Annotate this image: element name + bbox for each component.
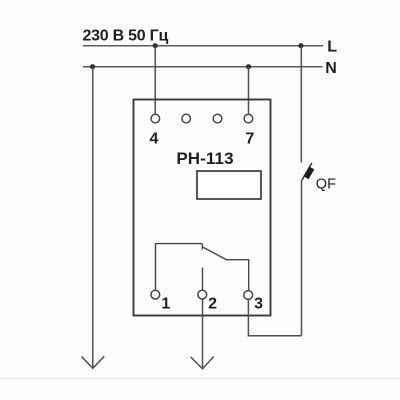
wire terminal 2 down to load arrow <box>202 299 204 368</box>
svg-text:2: 2 <box>208 295 217 312</box>
arrowhead middle load <box>191 357 214 369</box>
terminal 3 circle <box>244 291 253 300</box>
relay fixed contact tick <box>201 244 203 250</box>
terminal 6 circle <box>213 114 222 123</box>
svg-text:N: N <box>325 60 337 77</box>
device box РН-113 <box>134 100 271 316</box>
svg-text:QF: QF <box>316 176 336 192</box>
wire terminal 3 down and right to QF branch <box>248 299 301 335</box>
wire L line <box>83 45 323 47</box>
terminal 4 circle <box>151 114 160 123</box>
svg-text:РН-113: РН-113 <box>176 149 233 168</box>
display window rectangle <box>197 171 261 199</box>
terminal 5 circle <box>182 114 191 123</box>
relay moving blade <box>203 247 227 260</box>
terminal 2 circle <box>198 290 207 299</box>
svg-text:3: 3 <box>254 295 263 312</box>
relay contact: common bar from terminal 1 <box>156 244 203 291</box>
wire terminal 2 stub <box>202 268 204 291</box>
svg-text:4: 4 <box>149 131 158 148</box>
svg-text:L: L <box>327 38 337 55</box>
wire from N to terminal 7 <box>248 67 250 115</box>
terminal 7 circle <box>244 114 253 123</box>
wire from N down to left load arrow <box>92 67 94 367</box>
wire blade to terminal 3 <box>227 260 249 291</box>
terminal 1 circle <box>151 290 160 299</box>
wire from L to terminal 4 <box>154 46 156 115</box>
wire N line <box>83 66 323 68</box>
junction dot on L at QF drop <box>298 43 303 48</box>
svg-text:1: 1 <box>161 295 170 312</box>
breaker QF blade <box>302 163 312 180</box>
junction dot on L at terminal-4 drop <box>153 43 158 48</box>
svg-text:7: 7 <box>245 131 254 148</box>
svg-text:230 В 50 Гц: 230 В 50 Гц <box>83 28 169 45</box>
wire QF lower segment down to y junction <box>301 180 303 335</box>
faint scan edge at bottom <box>0 378 400 380</box>
junction dot on N at left load drop <box>90 64 95 69</box>
breaker QF body (filled) <box>304 167 315 180</box>
junction dot on N at terminal-7 drop <box>246 64 251 69</box>
arrowhead left load <box>82 356 105 368</box>
wire QF upper segment from L <box>300 46 302 163</box>
